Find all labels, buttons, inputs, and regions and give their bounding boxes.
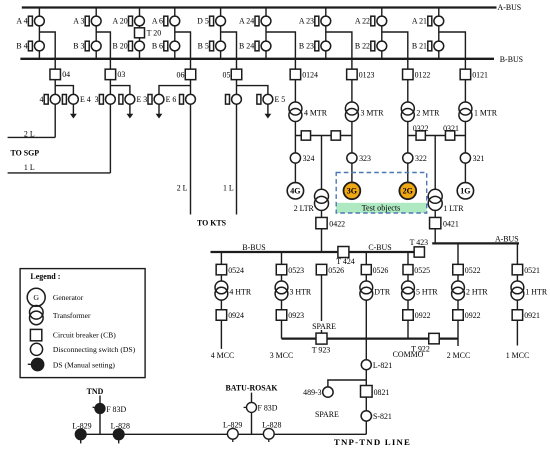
svg-text:Disconnecting switch (DS): Disconnecting switch (DS) (53, 345, 136, 354)
circuit breaker T 922 (411, 333, 439, 353)
svg-text:B 4: B 4 (16, 42, 27, 51)
svg-text:D 5: D 5 (197, 17, 209, 26)
wire feeder A 6/B 6 A-BUS to B-BUS (174, 8, 176, 59)
disconnecting switch 322 (403, 153, 427, 163)
disconnecting switch B 5 (198, 41, 226, 51)
wire 1 MTR column (464, 80, 466, 102)
svg-text:SPARE: SPARE (315, 410, 339, 419)
disconnecting switch A 3 (73, 16, 101, 26)
svg-text:04: 04 (62, 70, 70, 79)
wire 4 HTR to 0924 (220, 300, 222, 310)
wire BATU-ROSAK to F 83D (251, 393, 253, 403)
svg-text:1 LTR: 1 LTR (443, 204, 464, 213)
svg-text:A 4: A 4 (16, 17, 27, 26)
wire 0521 to 1 HTR (516, 275, 518, 281)
svg-text:0121: 0121 (472, 70, 488, 79)
svg-text:B-BUS: B-BUS (242, 243, 265, 252)
svg-text:A 6: A 6 (152, 17, 163, 26)
legend circuit breaker symbol (30, 329, 41, 340)
circuit breaker 0526 (361, 265, 388, 276)
circuit breaker 0324 (301, 131, 310, 140)
wire 0924 to 4 MCC (220, 320, 222, 349)
wire 04 to DS 4 (54, 80, 56, 95)
generator 1G (457, 183, 473, 199)
disconnecting switch B 24 (239, 41, 271, 51)
wire feeder A 22/B 22 A-BUS to B-BUS (381, 8, 383, 59)
circuit breaker 0924 (216, 310, 244, 321)
wire tee 4MTR-2LTR-3MTR (295, 135, 352, 137)
earth arrow E 6 (156, 104, 163, 118)
wire A-BUS2 drop 0521 (516, 243, 518, 264)
wire 0923 to MCC bus (281, 320, 283, 338)
disconnecting switch L-821 (361, 360, 392, 370)
svg-text:L-829: L-829 (72, 422, 91, 431)
wire 3 HTR to 0923 (281, 300, 283, 310)
circuit breaker T 923 (312, 333, 331, 354)
transformer 3 HTR (275, 281, 312, 300)
wire S-821 to TNP-TND line (365, 421, 367, 434)
svg-text:0922: 0922 (465, 311, 481, 320)
svg-text:F 83D: F 83D (106, 405, 126, 414)
legend box (20, 269, 145, 378)
wire 3 MTR column (351, 80, 353, 102)
svg-text:C-BUS: C-BUS (368, 243, 391, 252)
test objects green band (336, 203, 427, 213)
wire branch D 5 column to CB below (221, 32, 237, 69)
wire branch A 3 column to CB below (96, 32, 110, 69)
circuit breaker 0522 (453, 264, 481, 275)
svg-text:0523: 0523 (288, 266, 304, 275)
wire feeder A 20/B 20 A-BUS to B-BUS (139, 8, 141, 59)
wire 3 MTR to tee (351, 122, 353, 136)
wire branch A 21 column to CB below (439, 32, 466, 69)
disconnecting switch B 20 (113, 41, 145, 51)
svg-text:2G: 2G (403, 186, 413, 195)
wire feeder A 23/B 23 A-BUS to B-BUS (325, 8, 327, 59)
wire branch to E 4 (55, 86, 73, 95)
svg-text:0526: 0526 (373, 266, 389, 275)
A-BUS second tier (432, 242, 519, 244)
wire 03 to DS 3 (109, 80, 111, 95)
circuit breaker 0923 (276, 310, 304, 321)
circuit breaker 0122 (403, 69, 431, 80)
wire 2 MTR column (407, 80, 409, 102)
svg-text:E 5: E 5 (275, 95, 286, 104)
disconnecting switch L-828 (manual) (111, 422, 130, 444)
circuit breaker 04 (50, 69, 70, 80)
svg-text:0321: 0321 (443, 124, 459, 133)
wire feeder A 3/B 3 A-BUS to B-BUS (95, 8, 97, 59)
wire C-BUS drop 0526 (365, 252, 367, 264)
svg-text:05: 05 (223, 71, 231, 80)
wire branch A 6 column to CB below (175, 32, 191, 69)
svg-text:A-BUS: A-BUS (495, 235, 519, 244)
wire DTR down to L-821 (365, 300, 367, 360)
svg-text:0521: 0521 (524, 266, 540, 275)
wire tee to DS 323 (351, 136, 353, 153)
svg-text:Circuit breaker (CB): Circuit breaker (CB) (53, 331, 116, 340)
svg-text:Test objects: Test objects (362, 204, 401, 213)
transformer 1 HTR (511, 281, 548, 300)
svg-text:323: 323 (359, 154, 371, 163)
disconnecting switch F 83D (batu-rosak) (244, 402, 278, 412)
wire 1 MTR to tee (464, 122, 466, 136)
disconnecting switch E 5 (257, 94, 285, 104)
disconnecting switch L-828 (line) (262, 420, 281, 442)
disconnecting switch 323 (347, 153, 371, 163)
svg-text:0922: 0922 (415, 311, 431, 320)
svg-text:T 423: T 423 (410, 238, 429, 247)
wire feeder A 24/B 24 A-BUS to B-BUS (265, 8, 267, 59)
svg-text:3G: 3G (347, 186, 357, 195)
transformer 5 HTR (402, 281, 439, 300)
wire 1LTR to 0421 (434, 210, 436, 217)
svg-text:Transformer: Transformer (53, 311, 91, 320)
wire 2LTR column from tee (321, 136, 323, 190)
svg-text:T 20: T 20 (147, 29, 162, 38)
svg-text:B 6: B 6 (152, 42, 163, 51)
wire DS 321 to generator 1G (464, 163, 466, 183)
wire 2LTR to 0422 (321, 210, 323, 217)
svg-text:1 MTR: 1 MTR (474, 108, 498, 117)
circuit breaker 03 (105, 69, 125, 80)
wire 0921 to 1 MCC (516, 320, 518, 345)
wire tee 2MTR-1LTR-1MTR (408, 135, 466, 137)
C-BUS second tier (349, 251, 414, 253)
disconnecting switch D 5 (197, 16, 225, 26)
svg-text:1 L: 1 L (24, 163, 35, 172)
wire F 83D to line (99, 414, 101, 435)
circuit breaker 0821 (361, 386, 390, 398)
disconnecting switch S-821 (361, 411, 392, 422)
disconnecting switch E 6 (148, 94, 176, 104)
svg-text:G: G (33, 293, 39, 302)
disconnecting switch A 20 (113, 16, 145, 26)
transformer 4 MTR (289, 102, 328, 122)
circuit breaker T 423 (410, 238, 429, 257)
disconnecting switch 324 (290, 153, 314, 163)
legend DS manual symbol (28, 358, 44, 370)
circuit breaker 0521 (512, 264, 540, 275)
circuit breaker 0322 (413, 124, 429, 140)
legend disconnecting switch symbol (30, 343, 42, 355)
svg-text:0123: 0123 (359, 70, 375, 79)
svg-text:A 3: A 3 (73, 17, 84, 26)
svg-text:B 22: B 22 (355, 42, 370, 51)
wire 2 HTR to 0922 (457, 300, 459, 310)
svg-text:Generator: Generator (53, 293, 84, 302)
svg-text:0526: 0526 (328, 266, 344, 275)
svg-text:L-829: L-829 (223, 420, 242, 429)
earth arrow E 5 (265, 104, 272, 118)
svg-text:4: 4 (39, 95, 43, 104)
wire DS 323 to generator 3G (351, 163, 353, 182)
wire 0524 to 4 HTR (220, 275, 222, 281)
svg-text:E 6: E 6 (166, 95, 177, 104)
generator 4G (287, 183, 303, 199)
wire F 83D batu-rosak to line (251, 412, 253, 434)
svg-text:2 HTR: 2 HTR (466, 288, 488, 297)
svg-text:0923: 0923 (288, 311, 304, 320)
disconnecting switch A 21 (412, 16, 444, 26)
svg-text:B 5: B 5 (198, 42, 209, 51)
wire A-BUS2 drop 0522 (457, 243, 459, 264)
svg-text:3: 3 (95, 95, 99, 104)
disconnecting switch A 6 (152, 16, 180, 26)
svg-text:4G: 4G (290, 186, 300, 195)
svg-text:321: 321 (473, 154, 485, 163)
disconnecting switch F 83D (manual) (93, 404, 127, 414)
B-BUS second tier (211, 251, 338, 253)
svg-text:324: 324 (303, 154, 315, 163)
svg-text:5 HTR: 5 HTR (416, 288, 438, 297)
circuit breaker 0124 (290, 69, 318, 80)
svg-text:0421: 0421 (443, 219, 459, 228)
circuit breaker 0921 (512, 310, 540, 321)
svg-text:DTR: DTR (374, 288, 391, 297)
wire 0526 to DTR (365, 275, 367, 281)
svg-text:TND: TND (87, 387, 104, 396)
circuit breaker 0323 (331, 131, 340, 140)
svg-text:T 923: T 923 (312, 345, 331, 354)
disconnecting switch 321 (460, 153, 484, 163)
transformer 1 MTR (459, 102, 498, 122)
generator 2G (399, 182, 416, 199)
disconnecting switch L-829 (line) (223, 420, 242, 442)
wire feeder A 4/B 4 A-BUS to B-BUS (38, 8, 40, 59)
wire 0922 to MCC bus end (457, 320, 459, 346)
svg-text:A 24: A 24 (239, 17, 254, 26)
svg-text:2 L: 2 L (24, 129, 35, 138)
transformer 4 HTR (215, 281, 252, 300)
wire TND to F 83D (99, 396, 101, 405)
wire branch to E 5 (237, 86, 268, 95)
circuit breaker 0524 (216, 264, 244, 275)
legend generator symbol (27, 288, 45, 306)
svg-text:A 21: A 21 (412, 17, 427, 26)
disconnecting switch A 4 (16, 16, 44, 26)
svg-text:TO SGP: TO SGP (11, 149, 40, 158)
wire branch A 22 column to CB below (382, 32, 408, 69)
svg-text:1 HTR: 1 HTR (525, 288, 547, 297)
wire 0522 to 2 HTR (457, 275, 459, 281)
svg-text:SPARE: SPARE (312, 322, 336, 331)
wire TNP-TND line (75, 433, 366, 435)
svg-text:Legend :: Legend : (30, 272, 60, 281)
wire branch to E 3 (110, 86, 129, 95)
svg-text:4 MTR: 4 MTR (304, 108, 328, 117)
disconnecting switch 4 (39, 94, 60, 104)
svg-text:3 HTR: 3 HTR (290, 288, 312, 297)
A-BUS main bus (22, 6, 497, 8)
earth arrow E 3 (127, 104, 134, 118)
svg-text:E 3: E 3 (137, 95, 148, 104)
earth arrow E 4 (70, 104, 77, 118)
svg-text:0522: 0522 (465, 266, 481, 275)
svg-text:0921: 0921 (524, 311, 540, 320)
circuit breaker 05 (223, 69, 242, 80)
svg-text:4 HTR: 4 HTR (229, 288, 251, 297)
svg-text:B 20: B 20 (113, 42, 128, 51)
svg-text:3 MTR: 3 MTR (361, 108, 385, 117)
wire 0422 to B-BUS2 (321, 229, 323, 252)
svg-text:0322: 0322 (413, 124, 429, 133)
svg-text:0124: 0124 (302, 70, 318, 79)
svg-text:T 922: T 922 (411, 344, 430, 353)
disconnecting switch A 22 (355, 16, 387, 26)
disconnecting switch B 23 (299, 41, 331, 51)
svg-text:1 MCC: 1 MCC (506, 351, 529, 360)
wire 05 to DS (236, 80, 238, 95)
wire 04 column down (54, 104, 56, 137)
disconnecting switch A 23 (299, 16, 331, 26)
svg-text:TO KTS: TO KTS (197, 219, 227, 228)
wire B-BUS2 drop 0524 (220, 252, 222, 264)
generator 3G (344, 182, 361, 199)
wire 05 column down (236, 104, 238, 214)
wire 0523 to 3 HTR (281, 275, 283, 281)
wire 2 MTR to tee (407, 122, 409, 136)
wire 4 MTR column (294, 80, 296, 102)
wire 03 column down (109, 104, 111, 173)
disconnecting switch 489-3 (303, 387, 333, 397)
svg-text:T 424: T 424 (336, 257, 355, 266)
svg-text:F 83D: F 83D (258, 404, 278, 413)
wire 5 HTR to 0922 (407, 300, 409, 310)
wire branch A 4 column to CB below (39, 32, 55, 69)
transformer DTR (360, 281, 391, 300)
disconnecting switch line 05 (226, 94, 242, 104)
svg-text:B 23: B 23 (299, 42, 314, 51)
svg-text:E 4: E 4 (80, 95, 91, 104)
B-BUS main bus (20, 58, 494, 60)
wire tee to DS 321 (464, 136, 466, 153)
svg-text:0525: 0525 (414, 266, 430, 275)
wire feeder A 21/B 21 A-BUS to B-BUS (438, 8, 440, 59)
disconnecting switch line 06 (180, 94, 196, 104)
disconnecting switch 3 (95, 94, 116, 104)
svg-text:0122: 0122 (415, 70, 431, 79)
wire DS 324 to generator 4G (294, 163, 296, 183)
disconnecting switch B 4 (16, 41, 44, 51)
wire 1LTR column from tee (434, 136, 436, 190)
disconnecting switch B 22 (355, 41, 387, 51)
svg-text:2 LTR: 2 LTR (294, 204, 315, 213)
wire 4 MTR to tee (294, 122, 296, 136)
svg-text:L-821: L-821 (373, 361, 392, 370)
circuit breaker 0526 (spare) (316, 264, 344, 275)
circuit breaker 0523 (276, 264, 304, 275)
legend transformer symbol (30, 306, 44, 325)
wire B-BUS2 drop 0523 (281, 252, 283, 264)
wire line 2L to SGP (8, 136, 56, 138)
circuit breaker 0421 (430, 217, 459, 228)
circuit breaker 0422 (316, 217, 345, 228)
svg-text:3 MCC: 3 MCC (270, 351, 293, 360)
svg-text:0524: 0524 (228, 266, 244, 275)
svg-text:B 21: B 21 (412, 42, 427, 51)
circuit breaker T 424 (336, 247, 355, 267)
svg-text:BATU-ROSAK: BATU-ROSAK (225, 384, 278, 393)
svg-text:A-BUS: A-BUS (498, 3, 522, 12)
wire 0421 to A-BUS2 (434, 229, 436, 244)
SPARE label (B-BUS feeder) (310, 321, 338, 331)
wire 06 column down (190, 104, 192, 214)
svg-text:L-828: L-828 (111, 422, 130, 431)
wire L-821 to 0821 (365, 370, 367, 386)
wire branch to 489-3 (328, 380, 366, 387)
MCC bus third tier (282, 337, 458, 339)
svg-text:B-BUS: B-BUS (500, 55, 523, 64)
svg-text:03: 03 (117, 70, 125, 79)
test objects dashed box (336, 173, 427, 214)
wire tee to DS 322 (407, 136, 409, 153)
svg-text:06: 06 (177, 71, 185, 80)
circuit breaker 06 (177, 69, 196, 80)
wire C-BUS drop 0525 (407, 252, 409, 264)
svg-text:DS (Manual setting): DS (Manual setting) (53, 360, 115, 369)
wire branch A 24 column to CB below (266, 32, 295, 69)
wire branch A 23 column to CB below (326, 32, 352, 69)
svg-text:2 MCC: 2 MCC (447, 351, 470, 360)
wire 0922 to MCC bus (407, 320, 409, 338)
svg-text:2 L: 2 L (177, 184, 188, 193)
svg-text:A 20: A 20 (113, 17, 128, 26)
disconnecting switch B 6 (152, 41, 180, 51)
disconnecting switch B 21 (412, 41, 444, 51)
wire tee to DS 324 (294, 136, 296, 153)
svg-text:0924: 0924 (228, 311, 244, 320)
wire branch to E 6 (159, 86, 191, 95)
circuit breaker 0922 (commo) (403, 310, 431, 321)
wire 0525 to 5 HTR (407, 275, 409, 281)
transformer 3 MTR (345, 102, 384, 122)
disconnecting switch A 24 (239, 16, 271, 26)
svg-text:A 22: A 22 (355, 17, 370, 26)
wire line 1L to SGP (8, 172, 111, 174)
circuit breaker 0121 (460, 69, 488, 80)
circuit breaker T 20 (135, 28, 145, 38)
svg-text:B 24: B 24 (239, 42, 254, 51)
wire feeder D 5/B 5 A-BUS to B-BUS (220, 8, 222, 59)
wire DS 322 to generator 2G (407, 163, 409, 182)
disconnecting switch E 4 (62, 94, 90, 104)
wire 0821 to S-821 (365, 397, 367, 411)
circuit breaker 0525 (403, 265, 430, 276)
svg-text:A 23: A 23 (299, 17, 314, 26)
svg-text:4 MCC: 4 MCC (211, 351, 234, 360)
transformer 2 LTR (294, 189, 329, 213)
transformer 2 HTR (452, 281, 489, 300)
svg-text:S-821: S-821 (373, 412, 392, 421)
svg-text:1 L: 1 L (223, 184, 234, 193)
circuit breaker 0922 (2 mcc) (453, 310, 481, 321)
svg-text:TNP-TND LINE: TNP-TND LINE (334, 437, 411, 447)
wire 0526 spare down (321, 275, 323, 333)
svg-text:2 MTR: 2 MTR (416, 108, 440, 117)
svg-text:B 3: B 3 (73, 42, 84, 51)
transformer 1 LTR (428, 189, 464, 213)
svg-text:322: 322 (415, 154, 427, 163)
circuit breaker 0123 (347, 69, 375, 80)
disconnecting switch E 3 (119, 94, 147, 104)
svg-text:1G: 1G (460, 186, 470, 195)
svg-text:L-828: L-828 (262, 420, 281, 429)
wire 1 HTR to 0921 (516, 300, 518, 310)
circuit breaker 0321 (443, 124, 459, 140)
svg-text:0821: 0821 (374, 388, 390, 397)
wire 06 to DS (190, 80, 192, 95)
